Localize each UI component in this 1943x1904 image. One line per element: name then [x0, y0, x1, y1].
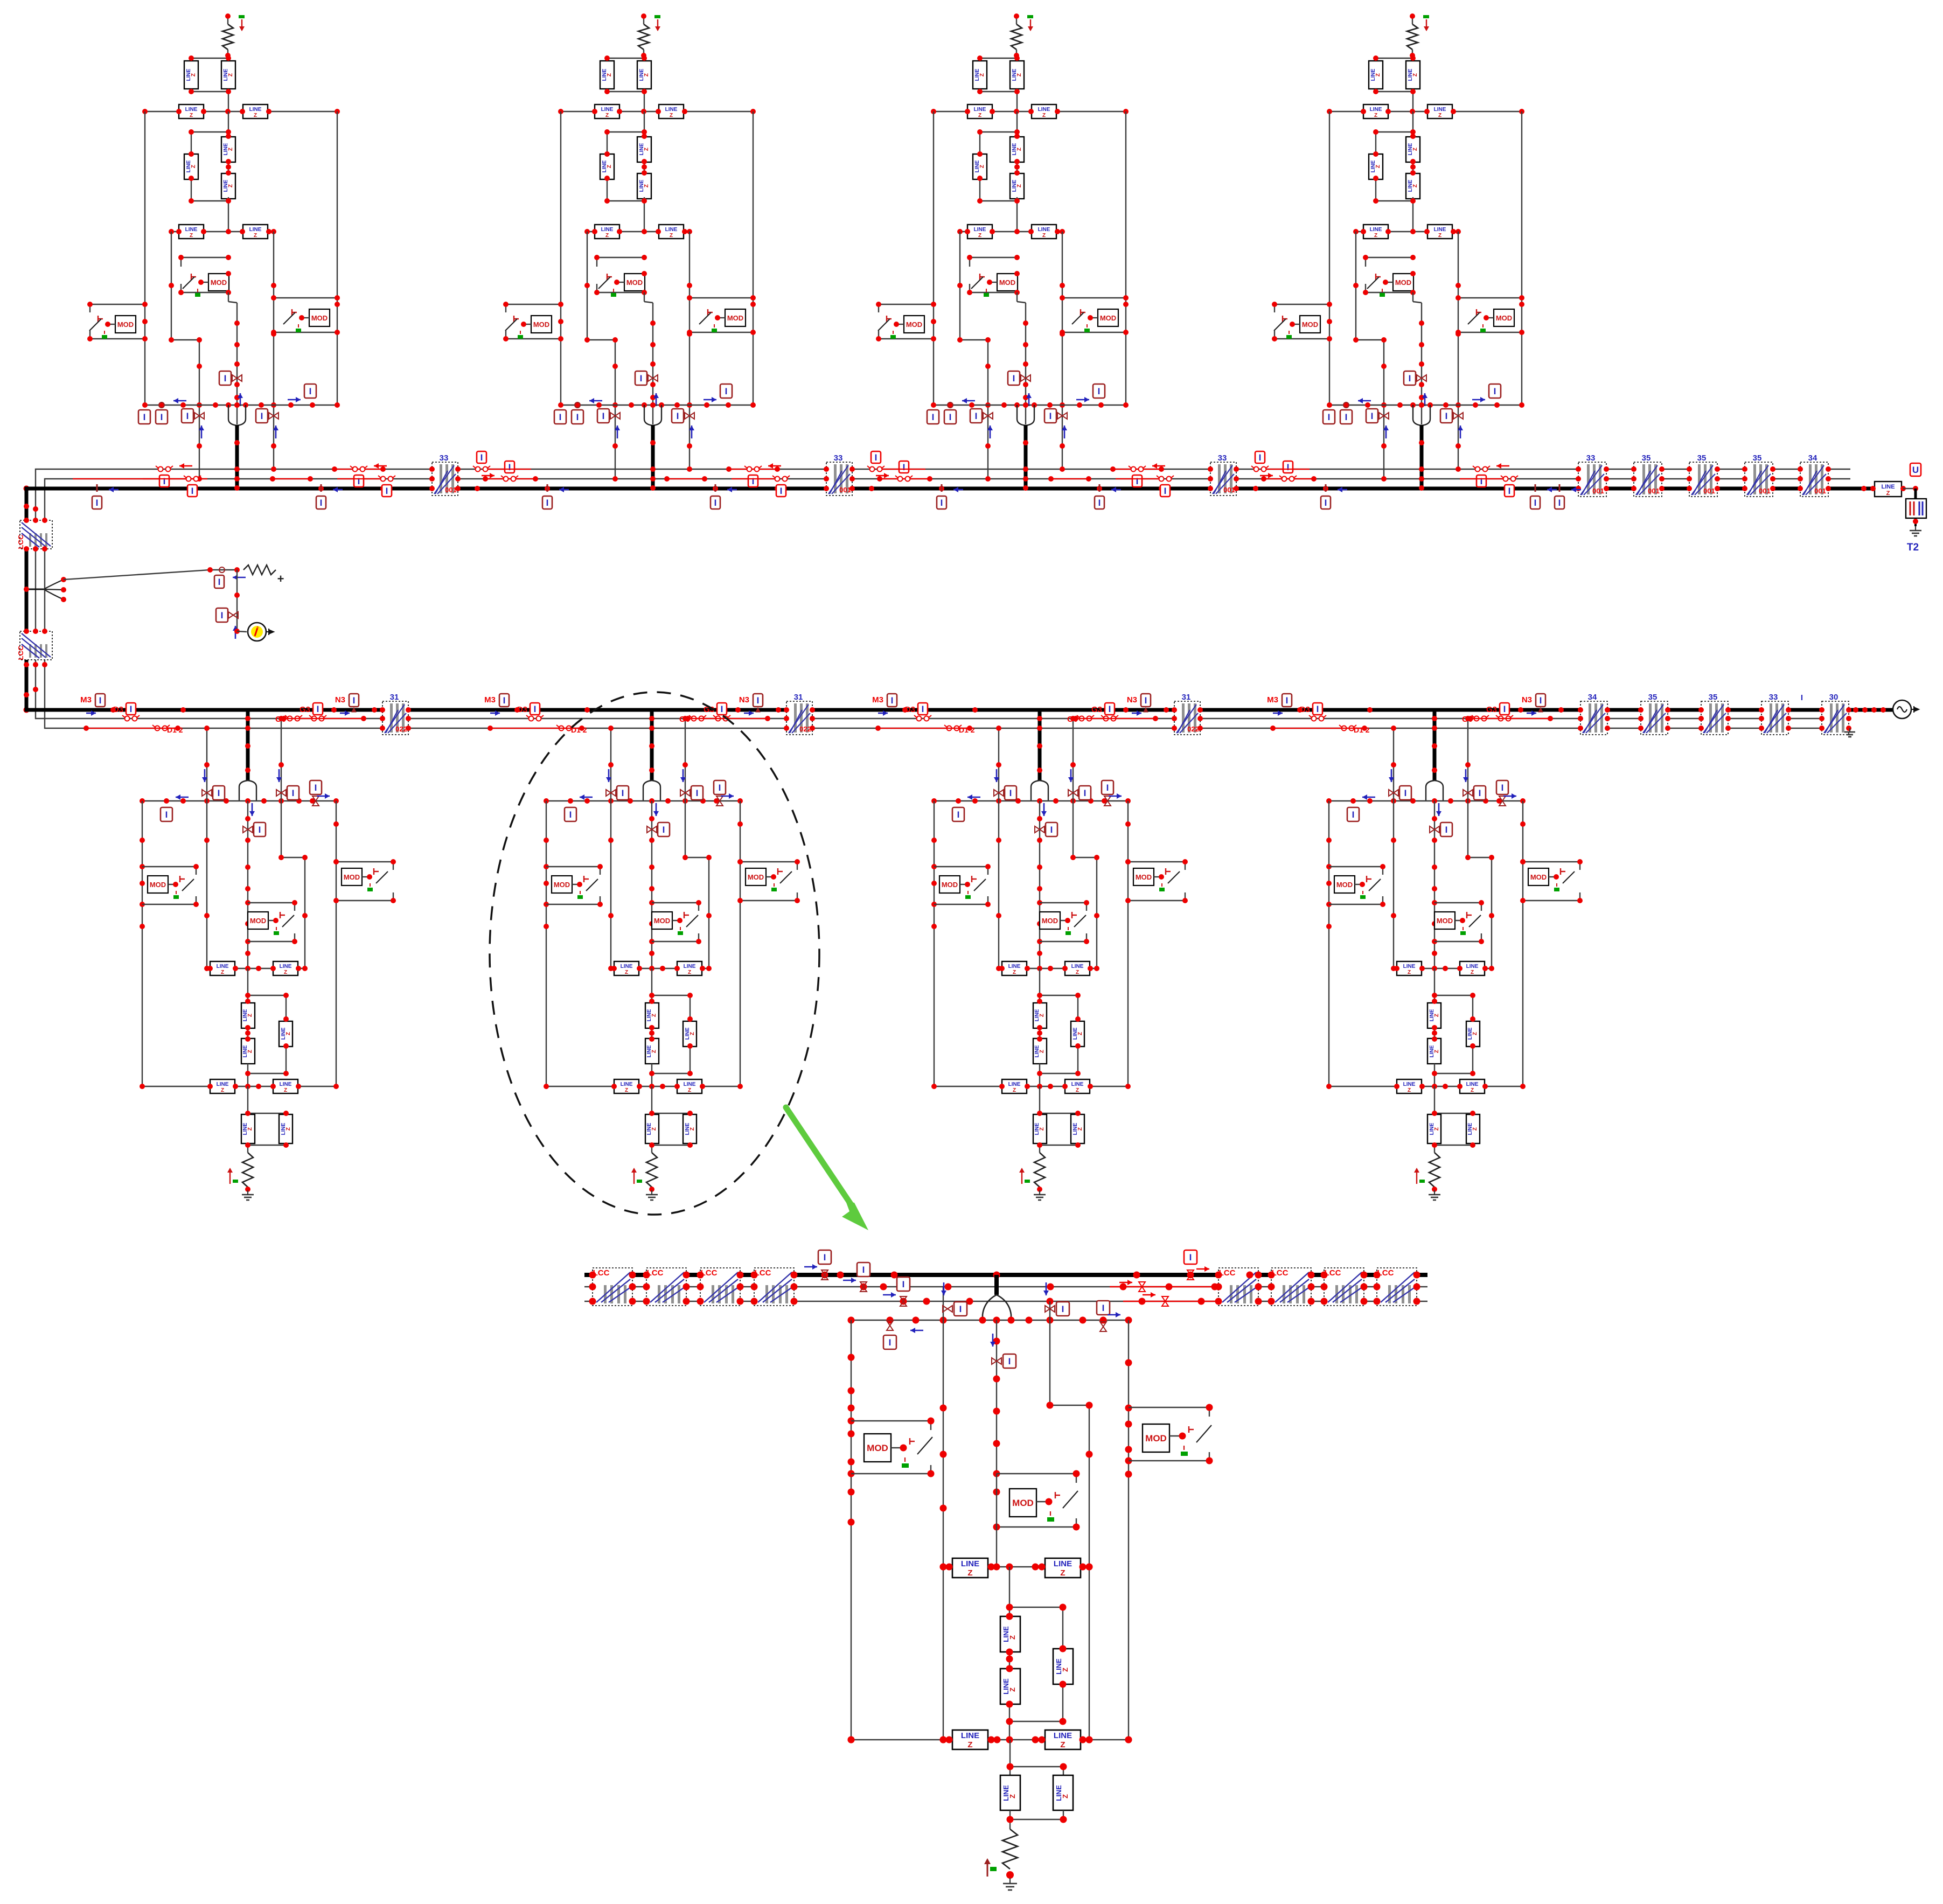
- svg-text:31: 31: [1182, 693, 1191, 702]
- svg-text:Z: Z: [1412, 184, 1418, 187]
- bus G-switch group at x=545: [275, 694, 377, 724]
- svg-text:I: I: [1445, 411, 1448, 421]
- top rail G4: [1329, 800, 1523, 801]
- resistor R2 (bottom): [646, 1153, 657, 1187]
- LINE Z row upper G1: [207, 968, 305, 969]
- LCC single block bottom bus x=1483: [786, 701, 812, 735]
- svg-text:Z: Z: [1039, 1050, 1045, 1053]
- svg-text:I: I: [165, 810, 168, 820]
- bus switch group at x=2391: [1251, 451, 1310, 482]
- svg-text:MOD: MOD: [727, 314, 743, 322]
- svg-text:I: I: [1801, 693, 1803, 702]
- probe at left drop G3: [994, 790, 1004, 796]
- svg-text:Z: Z: [1076, 970, 1079, 975]
- svg-text:Z: Z: [1472, 1032, 1478, 1035]
- probe I left end F2: [554, 410, 566, 424]
- LINE Z row upper detail: [943, 1566, 1089, 1567]
- svg-text:I: I: [315, 783, 317, 793]
- svg-text:I: I: [1409, 373, 1411, 383]
- LINE Z row upper G4: [1394, 968, 1492, 969]
- svg-text:Z: Z: [978, 113, 981, 118]
- MOD switch module right F4: [1458, 297, 1522, 298]
- ground G2: [651, 1190, 652, 1195]
- feeder subcircuit G4 (bottom): [1326, 710, 1583, 1200]
- svg-text:N3: N3: [1522, 695, 1532, 705]
- MOD switch module left G1: [142, 866, 196, 867]
- svg-text:I: I: [1328, 412, 1331, 422]
- LCC block upper-left: [20, 520, 52, 549]
- svg-text:Z: Z: [1077, 1032, 1083, 1035]
- svg-text:I: I: [99, 695, 102, 706]
- probe on right inner: [1045, 1306, 1055, 1312]
- svg-text:I: I: [1480, 476, 1483, 486]
- svg-text:34: 34: [1808, 454, 1817, 463]
- svg-text:I: I: [602, 411, 605, 421]
- detail circuit bus thin A: [584, 1286, 1427, 1288]
- red bus overlay near x=2271: [1113, 469, 1161, 470]
- probe at right drop G4: [1463, 790, 1473, 796]
- collector funnel G4: [1426, 780, 1443, 801]
- MOD switch module left F2: [506, 304, 561, 305]
- svg-text:LINE: LINE: [621, 964, 633, 970]
- svg-text:Z: Z: [607, 73, 612, 76]
- svg-text:G3: G3: [1091, 705, 1102, 714]
- MOD switch module left F1: [90, 304, 145, 305]
- probe I left F2: [575, 402, 580, 408]
- AC source right: [1853, 707, 1858, 713]
- svg-text:MOD: MOD: [211, 278, 227, 287]
- svg-text:Z: Z: [1008, 1794, 1016, 1798]
- svg-text:LINE: LINE: [249, 107, 262, 113]
- svg-text:I: I: [975, 411, 978, 421]
- MOD module left detail: [851, 1420, 931, 1421]
- center wire to funnel F2: [644, 292, 645, 302]
- svg-text:D1 2: D1 2: [167, 726, 183, 734]
- probe U at T2: [1903, 488, 1916, 489]
- probe I left G1: [161, 807, 172, 821]
- svg-text:Z: Z: [1412, 148, 1418, 151]
- bus corner junction dots: [24, 486, 30, 492]
- svg-text:LINE: LINE: [1466, 964, 1479, 970]
- svg-text:Z: Z: [1375, 73, 1381, 76]
- outer wires G1: [142, 801, 143, 1086]
- AC current source: [237, 631, 247, 632]
- svg-text:I: I: [1286, 695, 1289, 706]
- MOD switch module center G2: [652, 902, 699, 903]
- ladder LINE blocks detail: [1009, 1567, 1010, 1616]
- svg-text:001: 001: [1703, 487, 1715, 495]
- svg-text:LINE: LINE: [1403, 964, 1416, 970]
- wire to fault resistor: [64, 570, 210, 580]
- LCC block left 2: [646, 1268, 686, 1306]
- svg-text:LINE: LINE: [249, 227, 262, 233]
- svg-text:I: I: [1494, 386, 1496, 396]
- svg-text:35: 35: [1697, 454, 1707, 463]
- feeder subcircuit F4 (top): [1272, 13, 1524, 491]
- probe center G4: [1430, 826, 1439, 833]
- outer wires F1: [144, 111, 145, 405]
- svg-text:MOD: MOD: [1437, 917, 1453, 925]
- probe I left end F3: [927, 410, 939, 424]
- MOD switch module left F3: [879, 304, 934, 305]
- LINE Z row lower G2: [546, 1086, 740, 1087]
- svg-text:Z: Z: [1013, 970, 1016, 975]
- dashed highlight ellipse: [490, 692, 819, 1215]
- svg-text:I: I: [1534, 498, 1537, 508]
- LCC block right 1: [1218, 1268, 1258, 1306]
- LCC block left 4: [754, 1268, 794, 1306]
- bottom rail F1: [145, 404, 337, 406]
- LINE Z row lower detail: [851, 1739, 1129, 1740]
- svg-text:M3: M3: [872, 695, 883, 705]
- tick probe near left corner: [96, 484, 98, 492]
- probe I rail left: [887, 1321, 893, 1330]
- svg-text:001: 001: [1814, 487, 1826, 495]
- svg-text:Z: Z: [284, 1087, 287, 1093]
- svg-text:I: I: [941, 498, 943, 508]
- svg-text:Z: Z: [1434, 1014, 1440, 1017]
- resistor R4 (top): [1412, 16, 1413, 24]
- svg-text:I: I: [353, 695, 356, 706]
- center wire G4: [1434, 801, 1435, 968]
- probe I right F2: [720, 384, 732, 398]
- green zoom arrow: [786, 1107, 854, 1209]
- detail right inner wire: [1049, 1301, 1050, 1405]
- svg-text:I: I: [957, 810, 960, 820]
- probe I left F4: [1343, 402, 1349, 408]
- svg-text:MOD: MOD: [554, 881, 570, 889]
- LINE Z row lower F4: [1356, 231, 1458, 232]
- svg-text:I: I: [218, 577, 221, 587]
- svg-text:I: I: [1345, 412, 1348, 422]
- svg-text:001: 001: [445, 486, 457, 494]
- svg-text:LINE: LINE: [1008, 1082, 1021, 1087]
- svg-text:MOD: MOD: [748, 873, 764, 881]
- LINE Z row upper F1: [145, 111, 337, 112]
- top rail G3: [934, 800, 1128, 801]
- red bus overlay near corner: [73, 478, 207, 479]
- svg-text:I: I: [1145, 695, 1147, 706]
- bus switch group at x=666: [337, 463, 395, 497]
- svg-text:Z: Z: [1060, 1740, 1065, 1749]
- svg-text:I: I: [130, 704, 133, 714]
- ground G4: [1434, 1190, 1435, 1195]
- probe I left G2: [565, 807, 576, 821]
- thin drop right G2: [685, 719, 686, 857]
- LCC single block bottom bus x=733: [382, 701, 408, 735]
- center wire to funnel F3: [1016, 292, 1018, 302]
- svg-text:I: I: [96, 498, 99, 508]
- svg-text:LINE: LINE: [684, 1082, 696, 1087]
- svg-text:Z: Z: [1061, 1668, 1069, 1672]
- svg-text:MOD: MOD: [1336, 881, 1353, 889]
- svg-text:I: I: [903, 462, 906, 472]
- thick feeder drop G4: [1433, 710, 1437, 781]
- detail right outer wire: [1128, 1320, 1129, 1740]
- top bus thin wire A + left tie + bottom bus thin wire A: [36, 469, 1850, 719]
- svg-text:MOD: MOD: [1530, 873, 1547, 881]
- MOD switch module right F3: [1062, 297, 1126, 298]
- svg-text:Z: Z: [979, 165, 985, 168]
- LINE Z row upper F2: [561, 111, 753, 112]
- LINE Z row lower G3: [934, 1086, 1128, 1087]
- svg-text:I: I: [320, 498, 323, 508]
- svg-text:Z: Z: [191, 73, 197, 76]
- MOD module center detail: [997, 1473, 1076, 1474]
- bus M-switch group at x=2663: [1267, 694, 1373, 734]
- svg-text:MOD: MOD: [906, 320, 922, 329]
- svg-text:33: 33: [1586, 454, 1596, 463]
- probe I red right: [1184, 1250, 1197, 1264]
- svg-text:I: I: [191, 486, 194, 496]
- svg-text:LINE: LINE: [684, 964, 696, 970]
- MOD switch module center G3: [1040, 902, 1087, 903]
- probe I left F1: [159, 402, 164, 408]
- bottom rail F4: [1329, 404, 1522, 406]
- svg-text:I: I: [292, 788, 295, 798]
- svg-text:LINE: LINE: [1038, 107, 1050, 113]
- svg-text:I: I: [224, 373, 227, 383]
- LINE Z row upper G2: [611, 968, 709, 969]
- thick feeder drop F2: [651, 425, 655, 489]
- inner wires F4: [1355, 232, 1356, 340]
- MOD switch module right G1: [336, 861, 393, 862]
- probe I left F3: [948, 402, 953, 408]
- ground detail: [1009, 1878, 1011, 1884]
- LCC block left 1: [593, 1268, 632, 1306]
- svg-text:I: I: [1259, 452, 1262, 463]
- svg-text:Z: Z: [1434, 1127, 1440, 1131]
- tick probe at x=596: [321, 484, 322, 492]
- MOD switch module right F1: [274, 297, 337, 298]
- svg-text:I: I: [824, 1252, 826, 1263]
- svg-text:I: I: [163, 476, 166, 486]
- svg-text:Z: Z: [690, 1127, 695, 1131]
- current probe center F3: [1021, 375, 1030, 381]
- svg-text:Z: Z: [1016, 148, 1022, 151]
- svg-text:MOD: MOD: [1496, 314, 1512, 322]
- probe at left drop G4: [1389, 790, 1398, 796]
- svg-text:Z: Z: [254, 233, 257, 239]
- thin drop right G4: [1467, 719, 1468, 857]
- svg-text:LINE: LINE: [1370, 227, 1382, 233]
- svg-text:Z: Z: [228, 73, 234, 76]
- tick probe at x=1016: [547, 484, 548, 492]
- svg-text:Z: Z: [190, 113, 193, 118]
- svg-text:N3: N3: [739, 695, 749, 705]
- svg-text:Z: Z: [1042, 233, 1046, 239]
- svg-text:Z: Z: [1471, 1087, 1474, 1093]
- outer wires F2: [560, 111, 561, 405]
- LCC block right 2: [1271, 1268, 1311, 1306]
- collector funnel G2: [643, 780, 660, 801]
- detail circuit bus thin B: [584, 1301, 1427, 1302]
- svg-text:Z: Z: [1412, 73, 1418, 76]
- svg-text:Z: Z: [285, 1032, 291, 1035]
- probe I right G4: [1499, 796, 1506, 806]
- bus M-switch group at x=460: [80, 694, 186, 734]
- svg-text:I: I: [719, 783, 721, 793]
- LINE feeder block T2: [1875, 482, 1902, 497]
- probe I right G1: [312, 796, 319, 806]
- svg-text:I: I: [1352, 810, 1355, 820]
- inner wires F3: [959, 232, 960, 340]
- probe I midright F4: [1453, 413, 1463, 419]
- probe I midright F2: [685, 413, 694, 419]
- MOD switch module center F3: [970, 257, 1017, 258]
- probe I midright F3: [1057, 413, 1067, 419]
- parallel LINE pair detail: [1009, 1740, 1011, 1775]
- svg-text:I: I: [959, 1304, 962, 1314]
- svg-text:I: I: [1008, 1356, 1011, 1366]
- svg-text:Z: Z: [1016, 184, 1022, 187]
- detail top rail: [851, 1320, 1129, 1321]
- current probe center F4: [1417, 375, 1426, 381]
- thin drop left G1: [206, 728, 207, 968]
- svg-text:I: I: [358, 476, 360, 486]
- svg-text:I: I: [386, 486, 388, 496]
- outer wires G3: [934, 801, 935, 1086]
- svg-text:MOD: MOD: [1145, 1433, 1167, 1443]
- svg-text:34: 34: [1588, 693, 1597, 702]
- svg-text:I: I: [862, 1265, 865, 1275]
- svg-text:I: I: [622, 788, 624, 798]
- svg-text:Z: Z: [1471, 970, 1474, 975]
- svg-text:Z: Z: [1008, 1635, 1016, 1640]
- svg-text:I: I: [546, 498, 549, 508]
- MOD switch module right G2: [740, 861, 797, 862]
- svg-text:Z: Z: [191, 165, 197, 168]
- bus dots: [821, 1272, 828, 1279]
- probe I rail right: [1100, 1322, 1106, 1331]
- bus switch group at x=2111: [1116, 463, 1174, 497]
- probe at left drop G1: [202, 790, 212, 796]
- probe center G1: [243, 826, 253, 833]
- svg-text:LINE: LINE: [665, 227, 678, 233]
- source arrow G3: [1021, 1169, 1022, 1184]
- probe on left inner: [943, 1306, 952, 1312]
- svg-text:Z: Z: [607, 165, 612, 168]
- svg-text:I: I: [186, 411, 189, 421]
- svg-text:LINE: LINE: [280, 1082, 292, 1087]
- svg-text:MOD: MOD: [654, 917, 670, 925]
- svg-text:Z: Z: [1016, 73, 1022, 76]
- five LCC group bottom bus: [1580, 701, 1607, 735]
- svg-text:Z: Z: [670, 113, 673, 118]
- svg-text:Z: Z: [1374, 233, 1377, 239]
- svg-text:Z: Z: [690, 1032, 695, 1035]
- LINE Z row lower G1: [142, 1086, 336, 1087]
- ladder LINE blocks F1: [228, 111, 229, 136]
- LINE blocks pair top F4: [1376, 58, 1413, 59]
- resistor R3 (bottom): [1034, 1153, 1045, 1187]
- red arrow probes: [1119, 1282, 1132, 1284]
- feeder subcircuit F1 (top): [87, 13, 340, 491]
- svg-text:Z: Z: [1408, 1087, 1411, 1093]
- LCC block right 4: [1377, 1268, 1417, 1306]
- svg-text:I: I: [1062, 1304, 1064, 1314]
- LINE blocks pair top F3: [980, 58, 1017, 59]
- svg-text:MOD: MOD: [1100, 314, 1116, 322]
- svg-text:35: 35: [1642, 454, 1651, 463]
- svg-text:I: I: [1317, 704, 1319, 714]
- svg-text:Z: Z: [284, 970, 287, 975]
- svg-text:MOD: MOD: [117, 320, 134, 329]
- LCC block right 3: [1324, 1268, 1364, 1306]
- probe I midleft F2: [610, 413, 620, 419]
- svg-text:D1 2: D1 2: [959, 726, 975, 734]
- svg-text:I: I: [221, 610, 224, 620]
- svg-text:33: 33: [440, 454, 449, 463]
- svg-text:I: I: [576, 412, 579, 422]
- bottom rail F3: [934, 404, 1126, 406]
- svg-text:I: I: [1501, 783, 1504, 793]
- svg-text:G3: G3: [300, 705, 310, 714]
- thin drop right G1: [281, 719, 282, 857]
- red bus overlay near x=1558: [729, 469, 777, 470]
- svg-text:I: I: [143, 412, 146, 422]
- LCC single block top bus x=826: [432, 462, 458, 496]
- bus switch group at x=305: [143, 463, 201, 497]
- resistor R3 (top): [1016, 16, 1017, 24]
- thick feeder drop G1: [246, 710, 250, 781]
- svg-text:MOD: MOD: [311, 314, 328, 322]
- svg-text:Z: Z: [605, 113, 609, 118]
- svg-text:T2: T2: [1907, 542, 1919, 553]
- svg-text:LCC: LCC: [17, 645, 25, 660]
- feeder subcircuit G3 (bottom): [931, 710, 1188, 1200]
- svg-text:I: I: [161, 412, 163, 422]
- svg-text:33: 33: [834, 454, 843, 463]
- fault resistor: [243, 565, 276, 575]
- LINE Z row upper G3: [999, 968, 1097, 969]
- svg-text:Z: Z: [979, 73, 985, 76]
- ladder LINE blocks F4: [1412, 111, 1413, 136]
- svg-text:MOD: MOD: [533, 320, 549, 329]
- svg-text:I: I: [1102, 1303, 1105, 1313]
- parallel LINE pair G3: [1039, 1086, 1040, 1114]
- svg-text:Z: Z: [221, 1087, 224, 1093]
- svg-text:Z: Z: [1077, 1127, 1083, 1131]
- svg-text:I: I: [503, 695, 506, 706]
- svg-text:I: I: [1189, 1252, 1192, 1263]
- resistor R1 (top): [227, 16, 228, 24]
- svg-text:001: 001: [1223, 486, 1235, 494]
- outer wires F3: [933, 111, 934, 405]
- probe I right G3: [1104, 796, 1111, 806]
- svg-text:I: I: [1558, 498, 1561, 508]
- center wire G2: [651, 801, 652, 968]
- svg-text:I: I: [1404, 788, 1407, 798]
- svg-text:I: I: [677, 411, 679, 421]
- svg-text:I: I: [1109, 704, 1111, 714]
- LCC single block top bus x=1558: [826, 462, 852, 496]
- probe I left G4: [1347, 807, 1359, 821]
- svg-text:Z: Z: [247, 1050, 253, 1053]
- svg-text:Z: Z: [254, 113, 257, 118]
- probe I bus 2: [857, 1263, 870, 1277]
- top rail G1: [142, 800, 336, 801]
- probe center G3: [1035, 826, 1044, 833]
- svg-text:LINE: LINE: [621, 1082, 633, 1087]
- LINE Z row lower G4: [1329, 1086, 1523, 1087]
- svg-text:022: 022: [799, 725, 811, 733]
- svg-text:I: I: [1084, 788, 1087, 798]
- source arrow G4: [1416, 1169, 1417, 1184]
- svg-text:I: I: [721, 704, 723, 714]
- ladder LINE blocks G2: [651, 968, 652, 1001]
- svg-text:Z: Z: [1013, 1087, 1016, 1093]
